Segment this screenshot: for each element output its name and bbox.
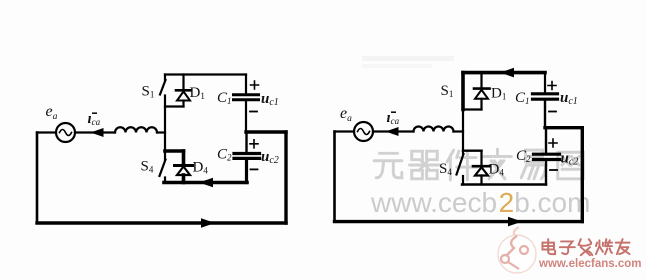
- S1/D1 pair bottom bar (right): [463, 108, 482, 110]
- switch S1 blade (left): [160, 80, 166, 95]
- bottom rail leg to C2 (right): [462, 183, 546, 185]
- diode D4 triangle (left): [177, 167, 190, 176]
- wire left rail vertical (right): [333, 132, 336, 222]
- diode D1 lower lead (right): [480, 99, 482, 110]
- capacitor C1 lead upper (left): [245, 75, 247, 94]
- diode D4 cathode bar (left, bold): [175, 164, 193, 167]
- minus mark C2 (left): [251, 168, 258, 170]
- elecfans logo text 电子发烧友 (vector glyphs): [542, 239, 629, 255]
- arrow ica current (right): [386, 127, 399, 136]
- switch S4 lower stub (left): [164, 178, 166, 183]
- bottom return wire (left, bold): [37, 221, 286, 224]
- mid node branch to right (left, bold): [246, 130, 286, 133]
- arrow on bottom rail pointing left (left): [199, 178, 213, 188]
- arrow on top rail pointing left (right): [500, 68, 514, 78]
- svg-text:S4: S4: [141, 159, 154, 175]
- arrow ica current (left): [91, 128, 104, 137]
- capacitor C2 lead upper (left): [245, 132, 247, 152]
- diode D1 cathode bar (right): [474, 87, 490, 90]
- inductor La (left): [115, 127, 157, 132]
- arrow on bottom wire pointing right (right): [508, 217, 522, 227]
- svg-text:uc2: uc2: [261, 149, 279, 166]
- svg-text:C2: C2: [217, 147, 232, 163]
- capacitor C2 plates (left, bold): [234, 152, 260, 155]
- wire source-left to left rail (right): [335, 130, 355, 132]
- bottom rail leg to C2 (left, bold): [164, 181, 247, 185]
- S1/D1 pair bottom bar (left): [165, 105, 184, 107]
- svg-text:uc1: uc1: [560, 90, 578, 107]
- plus mark C1 (right): [548, 82, 556, 90]
- top rail to C1 (right, bold): [463, 71, 545, 75]
- labels right circuit: [340, 83, 578, 178]
- svg-text:www.cecb: www.cecb: [370, 187, 497, 218]
- svg-text:b.com: b.com: [514, 187, 590, 218]
- svg-text:2: 2: [499, 187, 515, 218]
- svg-text:C1: C1: [217, 90, 232, 106]
- labels left circuit: [46, 84, 279, 176]
- wire source-left to left rail (left): [37, 131, 56, 133]
- wire inductor to leg midpoint (left): [157, 131, 165, 133]
- capacitor C1 lead lower to mid node (left): [245, 101, 247, 132]
- wire left rail vertical (left): [36, 133, 39, 224]
- bottom return wire (right, bold): [335, 220, 583, 223]
- watermark ghost streaks top: [362, 56, 454, 68]
- right vertical wire (left, bold): [284, 132, 287, 223]
- switch S4 upper stub (left): [164, 151, 166, 160]
- diode D1 branch lead upper (left): [182, 75, 184, 90]
- wire inductor to leg midpoint (right): [454, 130, 464, 132]
- diode D1 cathode bar (left): [176, 89, 191, 92]
- leg wire midpoint section (right): [462, 110, 464, 151]
- svg-text:D1: D1: [491, 86, 506, 102]
- minus mark C2 (right): [550, 169, 557, 171]
- diode D4 upper lead (right): [480, 151, 482, 165]
- watermark www.cecb2b.com: [370, 187, 590, 218]
- capacitor C2 lead upper (right): [545, 128, 547, 153]
- plus mark C1 (left): [251, 81, 259, 89]
- diode D4 cathode bar (right): [473, 165, 490, 168]
- arrow on bottom wire pointing right (left): [201, 218, 215, 228]
- switch S1 closed branch (right, bold): [461, 73, 465, 110]
- elecfans logo icon: [498, 227, 536, 273]
- watermark 元器件交易网 (vector glyphs): [374, 149, 583, 180]
- diode D4 triangle (right): [475, 167, 488, 175]
- switch S4 blade (right): [457, 154, 464, 175]
- capacitor C1 plates (left): [234, 93, 259, 96]
- wire source to inductor (left): [75, 131, 115, 133]
- diode D1 upper lead (right): [480, 73, 482, 88]
- diode D1 triangle (right): [475, 90, 488, 99]
- svg-text:D4: D4: [193, 160, 209, 176]
- capacitor C1 lead upper (right): [544, 73, 546, 93]
- capacitor C1 lead lower to mid node (right): [544, 101, 546, 128]
- AC source ea (right): [354, 122, 373, 141]
- switch S1 lower stub / leg wire (left): [164, 96, 166, 152]
- svg-text:ea: ea: [46, 103, 58, 122]
- wire source to inductor (right): [373, 130, 414, 132]
- svg-text:uc1: uc1: [261, 91, 279, 108]
- diode D4 upper lead (left, bold): [182, 151, 186, 165]
- S4/D4 pair top bar (left, bold): [165, 149, 184, 153]
- AC source ea (left): [56, 123, 75, 142]
- svg-text:D1: D1: [190, 85, 205, 101]
- diode D4 lower lead (right): [480, 176, 482, 185]
- diode D1 lower lead (left): [182, 101, 184, 107]
- svg-text:www.elecfans.com: www.elecfans.com: [538, 258, 641, 270]
- svg-text:S1: S1: [142, 84, 155, 100]
- capacitor C2 plates (right, bold): [534, 153, 560, 156]
- svg-text:ea: ea: [340, 105, 352, 124]
- switch S4 upper stub (right): [462, 151, 464, 154]
- capacitor C1 plates (right, bold): [533, 92, 558, 95]
- right vertical wire (right, bold): [581, 128, 584, 222]
- switch S1 upper stub (left): [164, 75, 166, 81]
- minus mark C1 (right): [549, 111, 556, 113]
- plus mark C2 (left): [250, 140, 258, 148]
- top rail to C1 (left): [165, 73, 246, 75]
- S4/D4 pair top bar (right): [463, 149, 482, 151]
- capacitor C2 lead lower (left, bold): [245, 160, 248, 183]
- switch S4 blade (left): [160, 160, 166, 177]
- svg-text:C1: C1: [515, 90, 530, 106]
- switch S4 lower stub (right): [462, 176, 464, 185]
- capacitor C2 lead lower (right): [545, 161, 547, 185]
- mid node branch to right (right, bold): [545, 126, 582, 129]
- plus mark C2 (right): [549, 139, 557, 147]
- minus mark C1 (left): [250, 111, 257, 113]
- svg-text:S1: S1: [441, 83, 454, 99]
- diode D1 triangle (left): [177, 92, 190, 101]
- inductor La (right): [414, 127, 454, 132]
- diode D4 lower lead (left, bold): [182, 175, 186, 183]
